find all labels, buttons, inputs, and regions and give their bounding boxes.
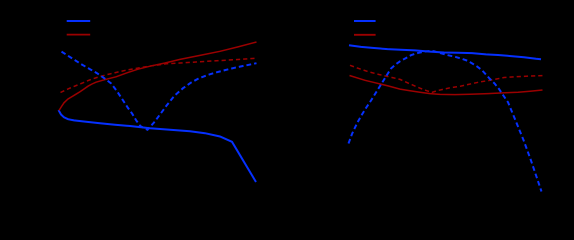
blue solid curve (right): [349, 45, 541, 59]
legend blue solid sample (right): [354, 20, 376, 22]
legend blue solid sample (left): [67, 20, 91, 22]
red dashed curve (right): [350, 65, 543, 92]
red dashed curve (left): [61, 58, 257, 92]
blue dashed parabola (right): [349, 51, 542, 192]
red solid curve (left): [59, 42, 257, 111]
legend red solid sample (left): [67, 34, 91, 36]
legend red solid sample (right): [354, 34, 376, 36]
blue solid curve (left): [59, 110, 257, 182]
blue dashed V curve (left): [62, 52, 257, 130]
red solid curve (right): [350, 76, 543, 95]
